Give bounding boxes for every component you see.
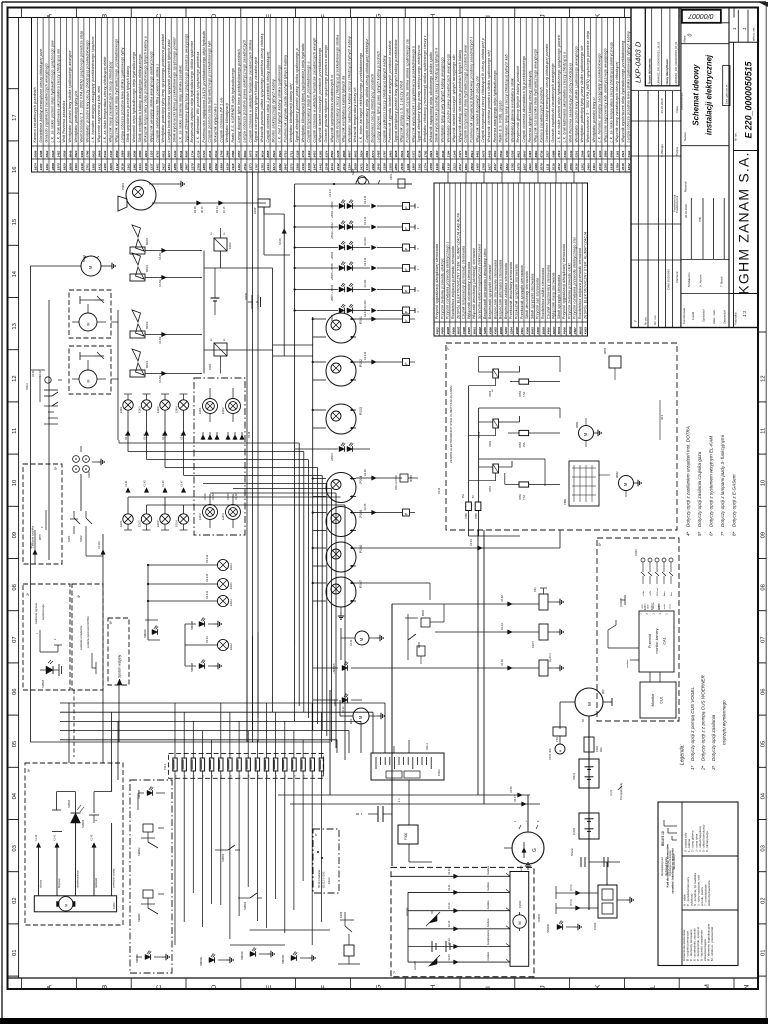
POL1 pin 16 wire up [311,703,313,758]
svg-text:3160: 3160 [464,150,468,157]
wire table column 63 [397,18,399,173]
POL1 pin 1 wire down [174,771,176,945]
svg-text:10: 10 [761,480,767,486]
wire table column 45 [292,18,294,173]
wire X systemwizyjny to bus [119,741,330,743]
wires C301 up [393,746,395,753]
svg-text:L.K. za niska temperatura ciec: L.K. za niska temperatura cieczy chłodzą… [609,42,613,142]
svg-text:2031: 2031 [243,163,247,171]
svg-text:2010: 2010 [598,163,602,171]
svg-text:B609: B609 [541,327,545,335]
dash-dot option box E301-E304 [194,378,245,535]
svg-text:SM00F: SM00F [240,951,244,960]
svg-text:2809: 2809 [441,163,445,171]
wire M001 to relay loop [145,277,202,279]
svg-text:E002: E002 [156,406,160,413]
headlamp P001 [326,313,356,343]
wire M0C2 to relay loop [145,334,202,336]
svg-text:S.Waluga: S.Waluga [660,144,664,157]
svg-text:2464: 2464 [586,163,590,171]
LED SN00B [557,924,563,929]
svg-text:Bezpiecznik zasilania sterowan: Bezpiecznik zasilania sterowania [504,263,508,319]
LED sensor +B001 + B002 [295,205,338,207]
wire table column 25 [176,18,178,173]
svg-text:Przekaźnik dmuchawy sterowania: Przekaźnik dmuchawy sterowania [509,262,513,319]
bus verticals from wire table [246,172,248,742]
svg-text:MD1B: MD1B [410,475,413,482]
svg-text:E102: E102 [156,520,160,527]
svg-text:Wentylator nadmuchu kabiny cie: Wentylator nadmuchu kabiny cieczy chłodz… [347,36,351,142]
svg-text:Przycisk rozwijania przewodu e: Przycisk rozwijania przewodu elektryczne… [573,236,577,319]
dashed option box gas sensor 5 [23,464,62,564]
svg-text:9115: 9115 [528,151,532,158]
component table column 6 [465,183,467,336]
svg-text:K2.08: K2.08 [279,238,282,245]
svg-text:Przetwornik sygnalizacji dźwię: Przetwornik sygnalizacji dźwiękowej prze… [470,36,474,142]
svg-text:gazu: gazu [38,533,42,540]
POL1 pin 1 wire up [174,703,176,758]
svg-text:M603: M603 [457,326,461,334]
svg-text:1400: 1400 [476,163,480,170]
wire table column 19 [141,18,143,173]
staircase wire [203,483,327,485]
right ruler ticks and numbers [758,975,766,977]
wire table column 94 [578,18,580,173]
wiper wire 1 [391,875,510,877]
svg-text:Rozdzielacz zwijacza przewodu: Rozdzielacz zwijacza przewodu sterowani [578,248,582,319]
svg-text:1244: 1244 [598,150,602,157]
component table column 16 [518,183,520,336]
svg-text:F608: F608 [536,327,540,334]
svg-text:Włącznik masy zasadniczych cie: Włącznik masy zasadniczych cieczy chłodz… [615,61,619,142]
main trunk vertical x392 [391,604,393,866]
scan edge line top [2,1,766,3]
svg-text:M002: M002 [145,238,149,245]
svg-text:2349: 2349 [301,163,305,171]
wire K2.08 vertical [263,207,265,214]
svg-text:2305: 2305 [388,163,392,171]
svg-text:Monitor elektrycznego tylnych: Monitor elektrycznego tylnych kabiny [272,79,276,142]
POL1 pin 15 wire up [302,740,304,758]
svg-text:Przycisk rozwijania przewodu e: Przycisk rozwijania przewodu elektryczne… [446,241,450,319]
svg-text:Włącznik wycieraczek oleju hyd: Włącznik wycieraczek oleju hydrauliczneg… [115,39,119,143]
svg-text:2966: 2966 [225,150,229,158]
wire table column 102 [624,18,626,173]
svg-text:Włącznik pompy L.S. 1 cieczy c: Włącznik pompy L.S. 1 cieczy chłod [400,81,404,142]
svg-text:Sygnał dźwiękowy przedni prawy: Sygnał dźwiękowy przedni prawy silnika s… [295,48,299,142]
AC fuse tails to relays [469,535,520,537]
AC left bus verticals [468,386,470,502]
svg-text:3869: 3869 [97,150,101,157]
svg-text:2519: 2519 [557,150,561,158]
wire table column 91 [560,18,562,173]
svg-text:P003: P003 [359,407,363,415]
svg-text:Gniazdo zapalniczki zasadniczy: Gniazdo zapalniczki zasadniczych awaryjn… [45,63,49,142]
svg-text:S208: S208 [483,327,487,334]
svg-text:Czujnik temperatury oleju lh p: Czujnik temperatury oleju lh przekładnio… [307,61,311,142]
component table column 13 [502,183,504,336]
wire M00B lower leads [87,360,89,370]
component table column 12 [497,183,499,336]
wire table column 16 [124,18,126,173]
wire table column 55 [351,18,353,173]
POL1 pin 4 wire up [201,731,203,758]
svg-text:K606: K606 [488,327,492,335]
wire table column 37 [246,18,248,173]
LED sensor +B005 + B006 [295,267,338,269]
svg-text:K1.40: K1.40 [35,834,38,841]
svg-text:1874: 1874 [33,163,37,170]
svg-text:kamera: kamera [653,601,655,609]
svg-text:2656: 2656 [132,150,136,158]
svg-text:Wyświetlany kod: Wyświetlany kod [661,857,664,876]
svg-text:0823: 0823 [272,150,276,157]
svg-text:C6B1: C6B1 [563,498,567,505]
svg-text:Zatwierdził: Zatwierdził [723,310,727,324]
svg-text:ekran: ekran [670,604,672,609]
svg-text:K6B2: K6B2 [489,440,492,447]
POL1 pin 12 [273,758,277,771]
svg-text:E102: E102 [229,643,233,650]
component table column 17 [523,183,525,336]
svg-text:2831: 2831 [499,163,503,171]
wire system wizyjny down [118,685,120,742]
svg-text:M: M [623,482,628,486]
headlamp wiring right side [356,318,403,320]
lamp E104 [217,559,228,570]
svg-text:F6B4: F6B4 [519,390,522,397]
connector pin P [403,203,410,210]
svg-text:B2.011 Zasilanie: B2.011 Zasilanie [318,869,321,888]
svg-text:8850: 8850 [115,150,119,157]
svg-text:Wentylator przedni lewy cieczy: Wentylator przedni lewy cieczy chłodzące… [85,40,89,142]
svg-text:B010 5 10: B010 5 10 [661,831,665,846]
svg-text:Legenda:: Legenda: [680,744,686,765]
svg-text:X2.411: X2.411 [363,279,367,288]
wire table column 86 [531,18,533,173]
svg-text:SM002: SM002 [221,853,225,862]
POL1 pin 3 [191,758,195,771]
svg-text:L.K. mat 1 tylnych kabiny siln: L.K. mat 1 tylnych kabiny silnika spalin… [278,65,282,143]
component table column 22 [549,183,551,336]
E30x diode drops [202,432,204,440]
svg-text:11: 11 [761,428,767,434]
svg-text:SM004: SM004 [137,913,141,922]
svg-text:Rozdzielacz wAłka sterowania: Rozdzielacz wAłka sterowania [541,268,545,319]
lamp E301 [203,399,218,414]
POL1 pin 5 [209,758,213,771]
svg-text:K1.43: K1.43 [91,834,94,841]
dashed box system wizyjny [108,618,129,685]
dash-dot box E4A [313,829,339,893]
svg-text:K: K [595,984,602,989]
relay K3O7 [539,624,548,640]
svg-text:Wyłącznik zdalny sterowania pr: Wyłącznik zdalny sterowania przednich ty… [458,50,462,143]
svg-text:0493: 0493 [563,150,567,157]
svg-text:CU1: CU1 [660,696,664,704]
POL1 pin 9 [246,758,250,771]
svg-text:1677: 1677 [487,163,491,170]
wire table column 69 [432,18,434,173]
svg-text:Rezerwa tylnych kabiny cieczy: Rezerwa tylnych kabiny cieczy chłodzącej [528,71,532,143]
transistor SM002 [143,824,153,832]
svg-text:14: 14 [12,270,18,277]
svg-text:L.K. za niskie poziom oleju hy: L.K. za niskie poziom oleju hydrauliczne… [51,40,55,143]
svg-text:X2.11: X2.11 [448,884,451,891]
svg-text:09: 09 [761,532,767,538]
bus vertical A main feed [294,184,296,645]
title block staff names [681,259,729,261]
relay K302 [214,238,227,251]
title block doc-name box [645,8,679,86]
wiper wire 4 [408,928,510,930]
verticals below second table [449,336,451,343]
svg-text:m µ4Σ 2: m µ4Σ 2 [549,652,552,662]
svg-text:X2.46: X2.46 [363,469,367,476]
svg-text:0787: 0787 [383,150,387,157]
svg-text:Czujnik ciśnienia oleju 1 prze: Czujnik ciśnienia oleju 1 przednich ciec… [266,52,270,143]
lamp E101 [217,578,228,589]
svg-text:M601: M601 [557,326,561,334]
svg-text:Przekaźnik sprężarki sterowani: Przekaźnik sprężarki sterowania [515,264,519,319]
svg-text:08: 08 [761,584,767,590]
svg-text:Wentylator klimatyzacji: Wentylator klimatyzacji [225,103,229,143]
svg-text:X2.410: X2.410 [363,300,367,309]
svg-text:Sygnał dźwiękowy tylny lewy sp: Sygnał dźwiękowy tylny lewy sprężonego p… [184,34,188,143]
svg-text:LR.Fwd: LR.Fwd [657,588,659,596]
svg-text:B005: B005 [421,609,425,616]
svg-text:S209: S209 [504,327,508,334]
svg-text:Dotyczy opcji z E-GASem: Dotyczy opcji z E-GASem [732,474,737,527]
POL1 pin 6 wire down [220,771,222,905]
svg-text:2616: 2616 [121,163,125,171]
svg-text:9143: 9143 [173,150,177,157]
svg-text:0710: 0710 [284,150,288,157]
svg-text:K2.07: K2.07 [30,542,33,549]
fuse box F300 [398,825,418,844]
svg-text:1881: 1881 [464,163,468,170]
title block main divider [680,8,682,328]
title block barcode box [682,10,721,23]
POL1 pin 15 [301,758,305,771]
wire table column 99 [607,18,609,173]
svg-text:Rozdzielacz zwijacza przewodu: Rozdzielacz zwijacza przewodu sterowania [451,246,455,319]
wire table column 44 [287,18,289,173]
transistor mark upper [95,299,104,301]
wire table column 65 [409,18,411,173]
svg-text:C301: C301 [437,769,441,776]
svg-text:M: M [64,904,68,907]
DOTRA box wire [91,653,93,668]
svg-text:Przycisk zwijania przewodu ele: Przycisk zwijania przewodu elekt [568,262,572,319]
svg-text:Bezpiecznik sprężarki sterowan: Bezpiecznik sprężarki sterowani [488,265,492,319]
wire M004 ground [101,265,108,267]
svg-text:Wolt Rezerwa zasadniczych ciec: Wolt Rezerwa zasadniczych cieczy chłodzą… [569,63,573,142]
svg-text:C3O2: C3O2 [593,922,597,930]
svg-text:S3O1: S3O1 [572,772,576,780]
svg-text:Włącznik dmuchawy (obrotowy) s: Włącznik dmuchawy (obrotowy) sterowani [472,248,476,319]
transistor SM004 [143,890,153,898]
svg-text:X2.412: X2.412 [363,257,367,266]
staircase wire [119,442,299,444]
svg-text:X2.414: X2.414 [363,351,367,360]
svg-text:8811: 8811 [516,151,520,158]
svg-text:2851: 2851 [394,163,398,171]
svg-text:Dotyczy opcji z systemem wizyj: Dotyczy opcji z systemem wizyjnym EL-KAM [709,436,714,527]
svg-text:B608: B608 [515,327,519,335]
svg-text:GOIHM: GOIHM [413,961,417,970]
svg-text:Czujnik ciśnienia lhP 1 ele: Czujnik ciśnienia lhP 1 ele [219,97,223,142]
svg-text:0465: 0465 [377,150,381,157]
svg-text:1943: 1943 [138,163,142,170]
svg-text:0831: 0831 [161,150,165,157]
svg-text:I: I [485,986,492,988]
svg-text:2442: 2442 [336,163,340,171]
svg-text:M.Małecko: M.Małecko [687,272,691,287]
LED sensor +B007 + B008 [295,289,338,291]
svg-text:Wyłącznik masy sterowania: Wyłącznik masy sterowania [552,272,556,319]
svg-text:2427: 2427 [161,163,165,171]
svg-text:3290: 3290 [505,150,509,157]
svg-text:K3O7: K3O7 [531,641,535,648]
svg-text:Wartownik oleju hydraulicznego: Wartownik oleju hydraulicznego oleju hyd… [132,52,136,143]
svg-text:Wartościomierz 3 ~ 3062 KPA (W: Wartościomierz 3 ~ 3062 KPA (WEN) sprężo… [80,31,84,143]
svg-text:2158: 2158 [383,163,387,171]
svg-text:0847: 0847 [522,150,526,157]
svg-text:2508: 2508 [208,163,212,171]
svg-text:K6.5: K6.5 [661,414,664,420]
svg-text:Brm: Brm [670,592,673,596]
fan M0C1 [132,349,141,361]
svg-text:G: G [375,984,382,989]
capacitor bars [377,806,379,822]
wire table column 78 [485,18,487,173]
radio wire różowy [38,843,40,896]
wire table column 88 [543,18,545,173]
wire table column 43 [281,18,283,173]
fuse F301 [584,737,594,752]
headlamp P007 [326,577,356,607]
svg-text:P001: P001 [359,316,363,324]
svg-text:Czujnik temperatury (termostat: Czujnik temperatury (termostat) sterowan… [462,246,466,319]
POL1 pin 10 wire up [256,740,258,758]
switch S004 contact marks [52,402,58,406]
svg-text:1617: 1617 [493,163,497,170]
bottom LED row a [209,957,215,962]
svg-text:[40]: [40] [601,689,605,694]
svg-text:K3.AB: K3.AB [235,493,238,500]
relay K3O8 [539,660,548,676]
wiper motor box C202 [510,872,529,967]
trunk bend to contactor [606,862,608,885]
svg-text:J: J [540,985,547,988]
svg-text:X2.A4: X2.A4 [501,623,504,630]
svg-text:Przewód: Przewód [648,634,652,648]
sheet inner frame left band line [18,18,20,979]
LED H005 [320,440,332,442]
POL1 pin 8 wire down [238,771,240,916]
starter wires [588,716,590,910]
POL1 pin 2 [182,758,186,771]
svg-text:28.02.2020: 28.02.2020 [684,204,688,218]
svg-text:1982: 1982 [132,163,136,170]
svg-text:P007: P007 [359,580,363,588]
LED SM009 [71,813,81,823]
wire table column 73 [455,18,457,173]
svg-text:1013: 1013 [330,163,334,170]
svg-text:M0C2: M0C2 [145,321,149,329]
svg-text:2482: 2482 [371,163,375,171]
sheet inner frame bottom band line [8,977,759,979]
wire table column 8 [77,18,79,173]
POL1 pin 7 wire down [229,771,231,939]
component table column 25 [565,183,567,336]
svg-text:brązowy: brązowy [57,878,61,888]
svg-text:1947: 1947 [313,163,317,170]
svg-text:Czujnik ciśnienia akumulatora: Czujnik ciśnienia akumulatora hp przekła… [522,56,526,143]
POL1 pin 2 wire up [183,712,185,758]
wire table column 60 [380,18,382,173]
svg-text:26.10.2020: 26.10.2020 [660,98,664,113]
wire table column 27 [188,18,190,173]
wire table column 1 [36,18,38,173]
lamp E004 [178,400,188,410]
fan M0C2 [132,310,141,322]
wire table column 52 [333,18,335,173]
svg-text:Kreślił: Kreślił [691,312,695,320]
svg-text:Włącznik wentylatora kabiny ty: Włącznik wentylatora kabiny tylnych ka [342,75,346,142]
wire X201 down [80,474,82,511]
svg-text:X2.414: X2.414 [363,216,367,225]
svg-text:2599: 2599 [581,150,585,158]
svg-text:2701: 2701 [86,163,90,171]
svg-text:2012: 2012 [342,163,346,171]
wire P009 to ground [149,183,177,185]
svg-text:2248: 2248 [324,163,328,171]
svg-text:Włącznik świateł roboczych tyl: Włącznik świateł roboczych tylnych awary… [452,54,456,142]
svg-text:czerwono-czarny: czerwono-czarny [112,868,116,888]
battery tap in loop [214,268,216,298]
svg-text:Autobox: Autobox [487,881,490,891]
svg-text:1599: 1599 [220,163,224,170]
svg-text:F602: F602 [435,327,439,334]
svg-text:11: 11 [12,428,18,434]
svg-text:K3.AC: K3.AC [212,493,215,500]
svg-text:1763: 1763 [260,163,264,170]
svg-text:40A: 40A [599,747,603,752]
camera cable to monitor wires [649,672,651,682]
svg-text:Oświetlenie kabiny wewnętrzne: Oświetlenie kabiny wewnętrzne cieczy chł… [39,49,43,143]
svg-text:0620: 0620 [92,150,96,157]
svg-text:2370: 2370 [191,163,195,171]
svg-text:X2.02: X2.02 [39,370,42,377]
sheet inner frame top band line [8,17,632,19]
radio wire niebieski [93,843,95,896]
svg-text:GND (1)P.402: GND (1)P.402 [395,474,398,490]
svg-text:L.K. hamulec awaryjny zaciągni: L.K. hamulec awaryjny zaciągnięty przekł… [598,53,602,142]
component table column 14 [507,183,509,336]
left ruler ticks and numbers [8,975,19,977]
svg-text:N: N [744,984,751,989]
wire table column 72 [450,18,452,173]
svg-text:Wyłącznik awaryjny silnika awa: Wyłącznik awaryjny silnika awaryjnego el… [149,51,153,142]
POL1 pin 9 wire up [247,731,249,758]
diode K3.AM d [162,371,167,375]
svg-text:X2.10: X2.10 [448,868,451,875]
wire table column 89 [549,18,551,173]
svg-text:1092: 1092 [214,163,218,170]
AC sensor B6B2 [609,356,621,368]
